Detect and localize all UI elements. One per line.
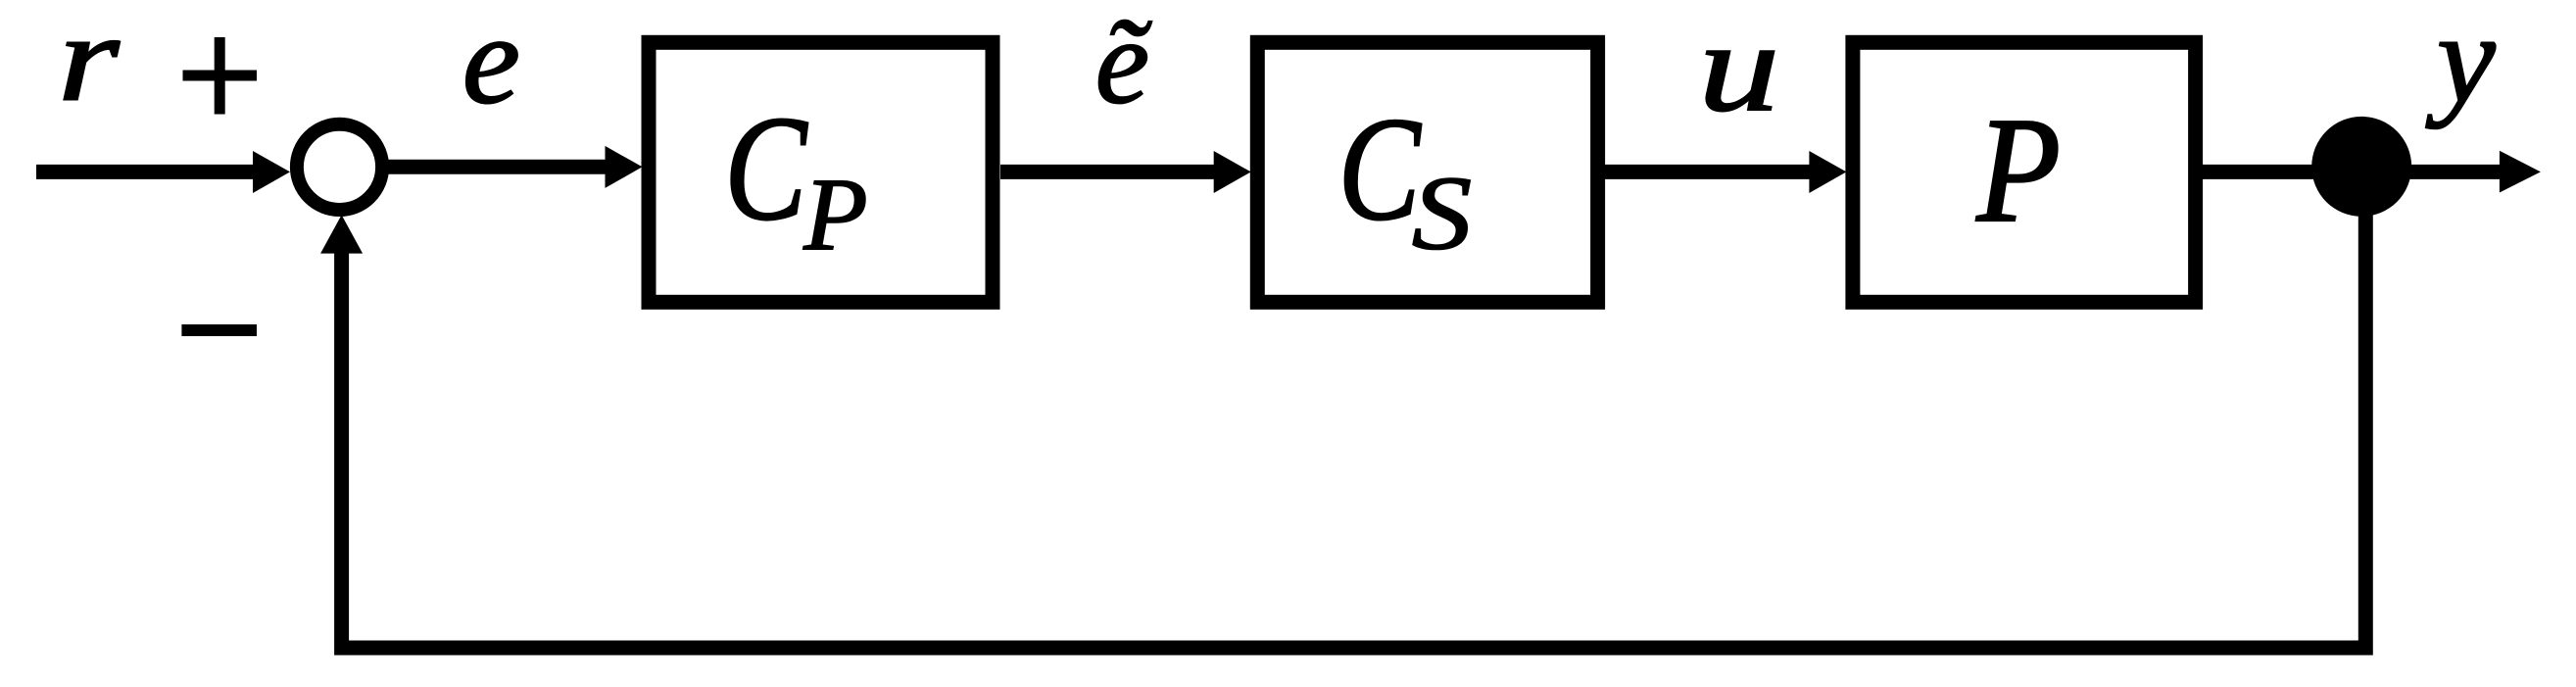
wire: e-tilde (CP to CS) xyxy=(1000,151,1251,193)
wire: u (CS to P) xyxy=(1605,151,1846,193)
wire: feedback right vertical (node down) xyxy=(2358,169,2373,656)
wire: output y xyxy=(2361,151,2541,193)
block CS xyxy=(1257,42,1597,302)
svg-text:ẽ: ẽ xyxy=(1095,0,1152,128)
wire: e (summing junction to CP) xyxy=(388,146,643,188)
label y xyxy=(2425,0,2496,129)
label CP xyxy=(724,86,867,273)
wire: P to pickoff node xyxy=(2203,165,2363,179)
label e-tilde xyxy=(1095,0,1152,128)
svg-text:y: y xyxy=(2425,0,2496,129)
wire: feedback bottom horizontal xyxy=(342,641,2366,656)
block CP xyxy=(649,42,993,302)
svg-text:P: P xyxy=(1975,86,2061,253)
svg-text:e: e xyxy=(462,0,520,130)
node: pickoff point xyxy=(2311,117,2411,217)
svg-text:P: P xyxy=(802,158,867,272)
svg-text:r: r xyxy=(58,0,120,127)
wire: feedback left vertical (up into summing junction) xyxy=(320,215,363,655)
label P (plant) xyxy=(1975,86,2061,253)
svg-text:S: S xyxy=(1412,154,1472,270)
label + (plus sign at summing junction) xyxy=(183,37,258,115)
block P xyxy=(1853,42,2196,302)
label r xyxy=(58,0,120,127)
label CS xyxy=(1338,87,1473,270)
svg-text:u: u xyxy=(1698,0,1779,138)
wire: input r into summing junction xyxy=(36,151,290,193)
label - (minus sign at feedback input) xyxy=(181,324,257,336)
label u xyxy=(1698,0,1779,138)
label e xyxy=(462,0,520,130)
svg-text:C: C xyxy=(724,86,807,252)
svg-text:C: C xyxy=(1338,87,1423,251)
summing junction xyxy=(297,124,382,210)
